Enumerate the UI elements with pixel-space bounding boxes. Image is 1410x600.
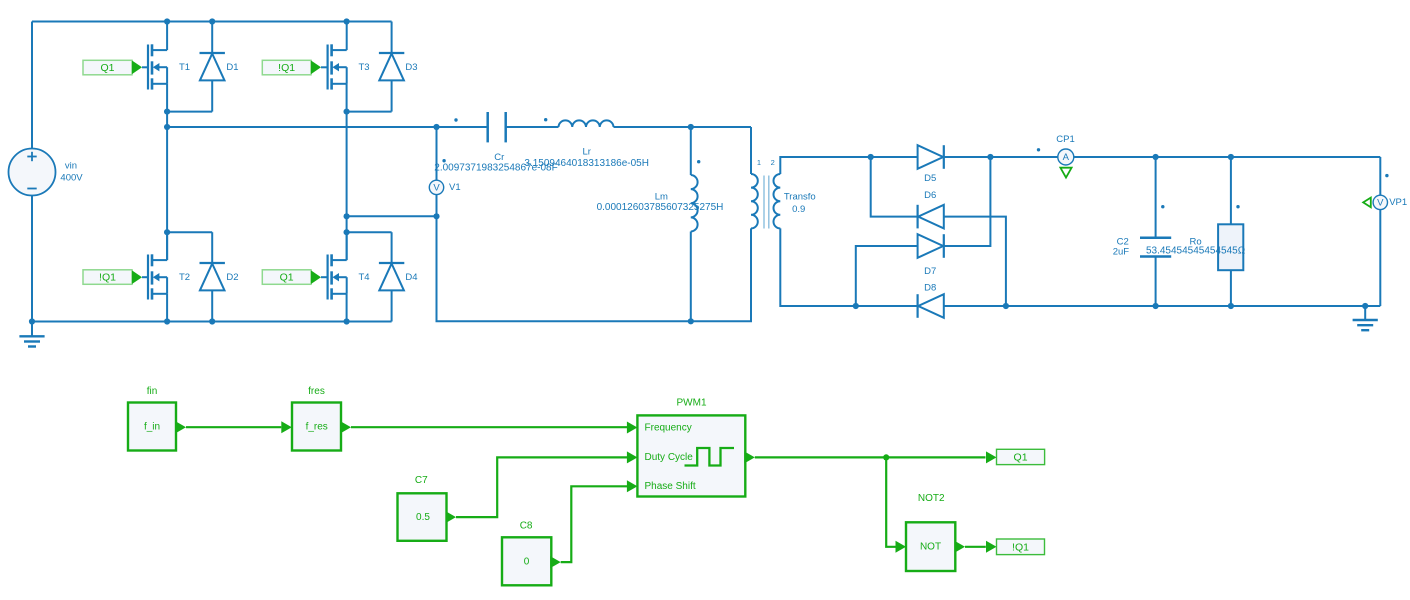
svg-text:fres: fres (308, 386, 325, 397)
arrow PWM duty in (627, 451, 638, 463)
arrow PWM phase in (627, 480, 638, 492)
wire D1 anode (167, 111, 212, 113)
svg-text:NOT2: NOT2 (918, 493, 945, 504)
polarity dot Ro (1236, 205, 1239, 208)
svg-text:400V: 400V (60, 173, 83, 184)
arrow C7 out (446, 511, 457, 523)
diode D3 (379, 22, 418, 112)
block f_res (292, 403, 341, 451)
arrow !Q1 tag in (986, 541, 997, 553)
arrow CP1 direction (1060, 168, 1071, 178)
arrow f_in out (176, 421, 187, 433)
svg-text:0.00012603785607325275H: 0.00012603785607325275H (597, 202, 724, 213)
svg-text:0.5: 0.5 (416, 512, 430, 523)
transistor T4 (328, 232, 370, 299)
wire leg2 T4 drain stub (346, 232, 348, 260)
wire leg2 T4 source stub (346, 294, 348, 322)
wire leg1 T1source-T2drain (166, 84, 168, 232)
junction D2 top (164, 229, 170, 235)
svg-text:V: V (433, 182, 440, 193)
svg-text:vin: vin (65, 161, 77, 172)
wire gate T1 (142, 66, 148, 68)
svg-text:PWM1: PWM1 (677, 398, 707, 409)
wire leg1 T2 source stub (166, 294, 168, 322)
polarity dot Lm (697, 160, 700, 163)
wire left rail lower (31, 196, 33, 322)
svg-text:f_res: f_res (306, 422, 328, 433)
svg-text:D5: D5 (924, 173, 936, 184)
diode D8 (918, 294, 944, 318)
transformer secondary winding (774, 174, 781, 228)
junction leg1 mid (164, 124, 170, 130)
svg-text:A: A (1063, 152, 1070, 163)
wire C7 to PWM (456, 457, 627, 517)
junction DC- D6 (1003, 303, 1009, 309)
ammeter CP1 (1058, 149, 1074, 165)
wire NOT to !Q1 (965, 546, 986, 548)
svg-text:V: V (1377, 197, 1384, 208)
junction top rail T1 (164, 18, 170, 24)
svg-text:T1: T1 (179, 62, 190, 73)
tag Q1 gate T1 (83, 60, 132, 75)
svg-text:T2: T2 (179, 272, 190, 283)
svg-text:Duty Cycle: Duty Cycle (645, 452, 694, 463)
wire D7 right branch (944, 157, 991, 246)
svg-text:D8: D8 (924, 283, 936, 294)
wire DC plus rail (944, 156, 1381, 158)
inductor Lm (691, 175, 698, 232)
svg-text:T4: T4 (358, 272, 369, 283)
wire top rail (32, 21, 392, 23)
wire secondary top (780, 157, 917, 174)
arrow f_res out (341, 421, 352, 433)
transistor T3 (328, 22, 370, 90)
junction Ro bottom (1228, 303, 1234, 309)
junction T4 source (344, 318, 350, 324)
ground left (19, 322, 44, 347)
capacitor C2 (1140, 238, 1171, 257)
arrow gate T2 (132, 270, 142, 284)
transformer Transfo primary winding (751, 174, 758, 228)
transistor T2 (148, 232, 190, 299)
junction AC1 D6 (868, 154, 874, 160)
junction PWM output (883, 454, 889, 460)
wire DC minus rail (944, 305, 1381, 307)
svg-text:Q1: Q1 (100, 62, 114, 74)
tag !Q1 gate T3 (262, 60, 311, 75)
arrow gate T1 (132, 61, 142, 75)
svg-text:1: 1 (757, 158, 761, 167)
diode D1 (200, 22, 239, 112)
inductor Lr (559, 120, 614, 127)
voltmeter V1 (429, 180, 443, 194)
svg-text:2: 2 (771, 158, 775, 167)
wire C8 to PWM (561, 486, 628, 562)
block C7 (398, 493, 447, 541)
svg-text:!Q1: !Q1 (278, 62, 295, 74)
junction AC2 D7 (853, 303, 859, 309)
junction top rail T3 (344, 18, 350, 24)
junction D2 bottom (209, 318, 215, 324)
arrow Q1 tag in (986, 451, 997, 463)
block PWM1 (637, 415, 745, 496)
svg-text:D6: D6 (924, 190, 936, 201)
svg-text:3.1509464018313186e-05H: 3.1509464018313186e-05H (524, 158, 649, 169)
junction Lm top (688, 124, 694, 130)
tag Q1 out (997, 449, 1045, 464)
voltmeter VP1 (1373, 195, 1387, 209)
block C8 (502, 537, 551, 585)
svg-text:0.9: 0.9 (792, 204, 805, 215)
svg-text:Lr: Lr (582, 147, 590, 158)
wire D4 cathode (347, 231, 392, 233)
diode D7 (918, 234, 944, 258)
svg-text:D7: D7 (924, 266, 936, 277)
tag Q1 gate T4 (262, 270, 311, 285)
polarity dot Cr (454, 118, 457, 121)
svg-text:0: 0 (524, 557, 530, 568)
svg-text:D1: D1 (226, 62, 238, 73)
arrow gate T3 (311, 61, 321, 75)
svg-text:Phase Shift: Phase Shift (645, 481, 696, 492)
wire C2 bottom (1155, 257, 1157, 307)
svg-text:CP1: CP1 (1056, 134, 1074, 145)
svg-text:!Q1: !Q1 (99, 272, 116, 284)
wire gate T4 (321, 276, 328, 278)
polarity dot CP1 (1037, 148, 1040, 151)
diode D6 (918, 205, 944, 229)
arrow f_res in (281, 421, 292, 433)
wire right rail top (1379, 157, 1381, 195)
junction ground right (1362, 303, 1368, 309)
arrow PWM out (744, 451, 755, 463)
ground right (1353, 306, 1378, 330)
block NOT (906, 522, 955, 571)
wire Lm top stub (690, 127, 692, 175)
svg-text:Cr: Cr (494, 152, 504, 163)
junction DC+ D7 (987, 154, 993, 160)
svg-text:f_in: f_in (144, 422, 160, 433)
arrow PWM frequency in (627, 422, 638, 434)
junction C2 bottom (1153, 303, 1159, 309)
junction Ro top (1228, 154, 1234, 160)
svg-text:NOT: NOT (920, 541, 941, 552)
wire Lr to transformer (614, 126, 752, 128)
wire Cr to Lr (506, 126, 559, 128)
wire D7 left branch (856, 246, 918, 306)
junction D4 top (344, 229, 350, 235)
svg-text:Frequency: Frequency (645, 422, 692, 433)
arrow C8 out (550, 556, 561, 568)
diode D2 (200, 232, 239, 321)
polarity dot V1 (442, 159, 445, 162)
svg-text:C8: C8 (520, 521, 533, 532)
wire PWM out to Q1 (755, 456, 986, 458)
wire D2 cathode (167, 231, 212, 233)
junction T1 source (164, 109, 170, 115)
junction Lm bottom (688, 318, 694, 324)
junction T3 source (344, 109, 350, 115)
wire D3 anode (347, 111, 392, 113)
svg-text:V1: V1 (449, 182, 461, 193)
junction bottom rail left (29, 318, 35, 324)
svg-text:!Q1: !Q1 (1012, 541, 1029, 553)
junction C2 top (1153, 154, 1159, 160)
arrow gate T4 (311, 270, 321, 284)
wire gate T2 (142, 276, 148, 278)
svg-text:C7: C7 (415, 475, 428, 486)
wire mid rail to Cr (437, 126, 488, 128)
wire bottom rail (32, 321, 392, 323)
wire Lm bottom stub (690, 232, 692, 322)
wire V1 bottom (436, 195, 438, 217)
block f_in (128, 403, 176, 451)
polarity dot Lr (544, 118, 547, 121)
junction Cr node (433, 124, 439, 130)
svg-text:D3: D3 (405, 62, 417, 73)
svg-text:D2: D2 (226, 272, 238, 283)
wire C2 top (1155, 157, 1157, 238)
wire to NOT (886, 457, 896, 546)
wire right rail bottom (1379, 210, 1381, 306)
svg-text:VP1: VP1 (1389, 197, 1407, 208)
svg-text:Q1: Q1 (280, 272, 294, 284)
wire Ro bottom (1230, 270, 1232, 306)
wire left rail upper (31, 22, 33, 149)
capacitor Cr (488, 112, 506, 142)
polarity dot VP1 (1385, 174, 1388, 177)
wire D6 left branch (871, 157, 918, 217)
svg-text:T3: T3 (358, 62, 369, 73)
svg-text:D4: D4 (405, 272, 417, 283)
voltage source vin (9, 149, 56, 196)
diode D4 (379, 232, 418, 321)
wire leg2 T3source-T4drain (346, 84, 348, 232)
polarity dot C2 (1161, 205, 1164, 208)
junction leg2 out (344, 213, 350, 219)
wire D6 right branch (944, 217, 1006, 306)
wire leg1 T2 drain stub (166, 232, 168, 260)
svg-text:2uF: 2uF (1113, 246, 1130, 257)
svg-text:fin: fin (147, 386, 158, 397)
diode D5 (918, 145, 944, 169)
wire mid rail bridge output (167, 126, 436, 128)
arrow NOT out (955, 541, 966, 553)
wire f_res to PWM (351, 426, 627, 428)
junction top rail D1 (209, 18, 215, 24)
transistor T1 (148, 22, 190, 90)
wire T3/T4 node to V1 (347, 215, 437, 217)
resistor Ro (1218, 224, 1243, 270)
icon PWM waveform (685, 448, 735, 466)
wire Ro top (1230, 157, 1232, 224)
wire transformer primary top (750, 127, 752, 174)
wire V1 top (436, 127, 438, 180)
wire secondary bottom (780, 228, 917, 306)
wire f_in to f_res (186, 426, 281, 428)
svg-text:Transfo: Transfo (784, 192, 816, 203)
transformer core (764, 176, 769, 229)
svg-text:Q1: Q1 (1014, 451, 1028, 463)
wire tank return (437, 216, 752, 321)
tag !Q1 out (997, 539, 1045, 555)
arrow NOT in (896, 541, 907, 553)
junction V1 bottom (433, 213, 439, 219)
wire gate T3 (321, 66, 328, 68)
svg-text:53.45454545454545Ω: 53.45454545454545Ω (1146, 246, 1246, 257)
arrow VP1 direction (1363, 198, 1371, 208)
tag !Q1 gate T2 (83, 270, 132, 285)
junction T2 source (164, 318, 170, 324)
